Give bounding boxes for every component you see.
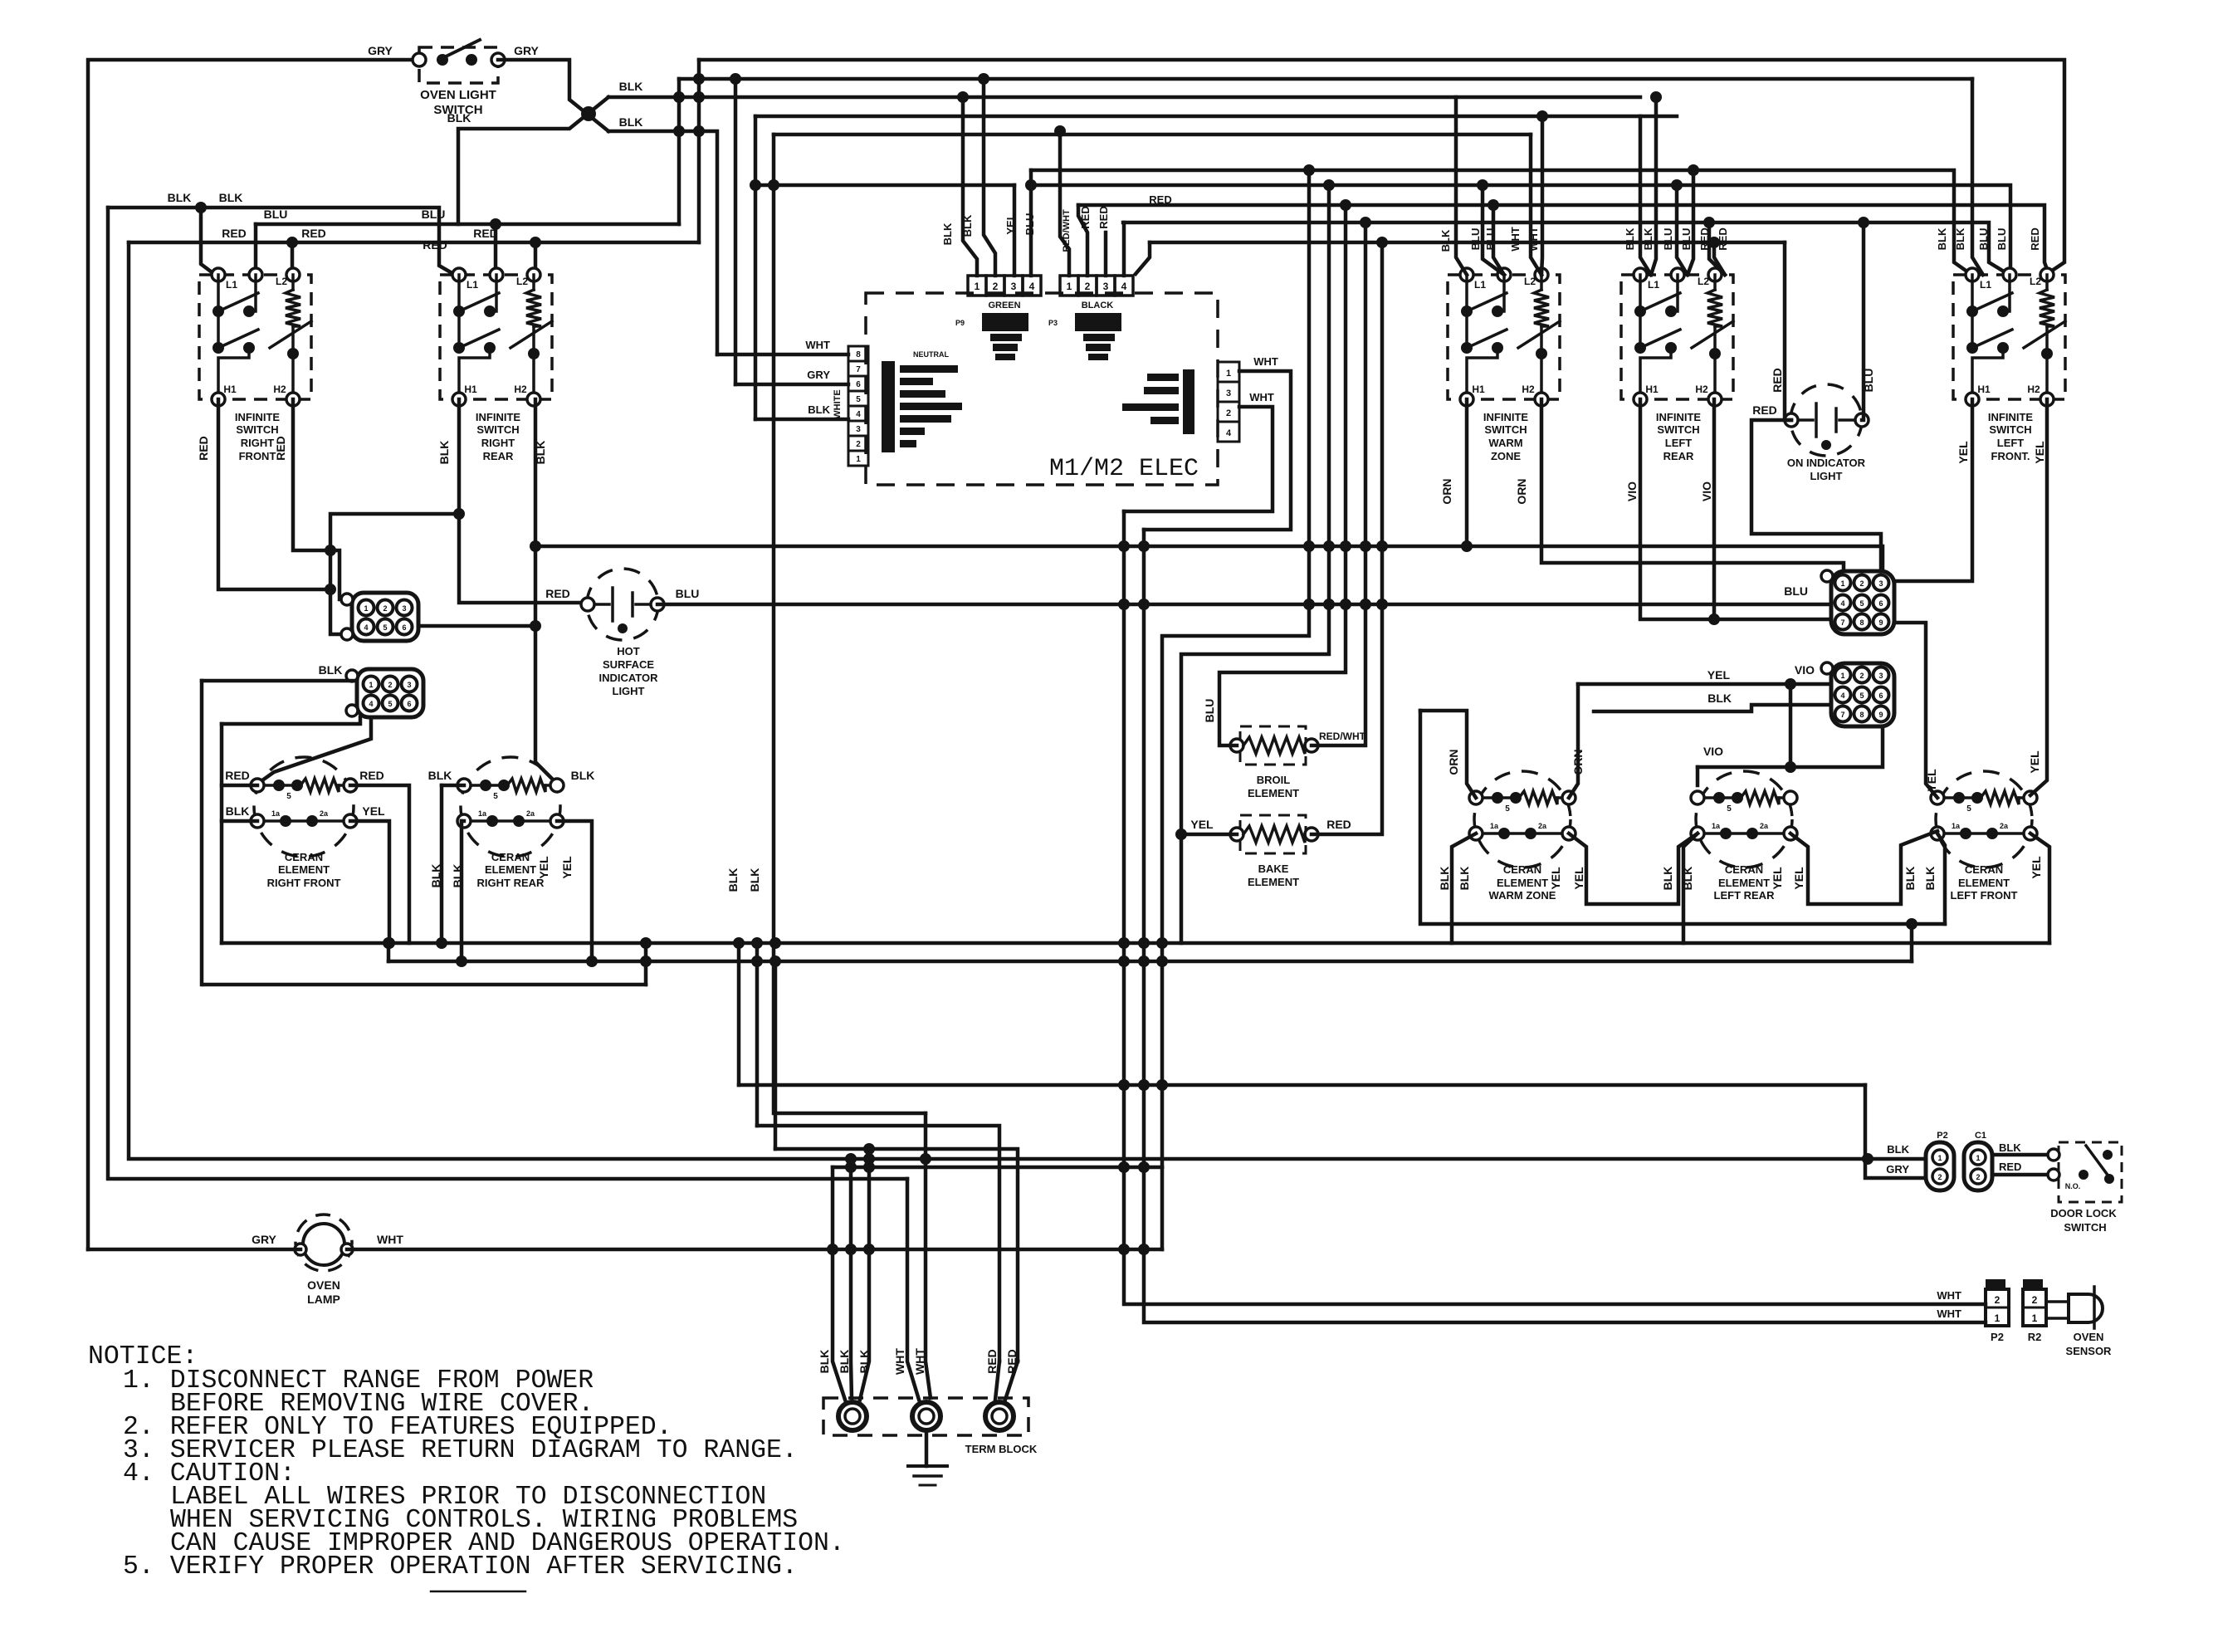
svg-text:9: 9: [1878, 711, 1883, 719]
svg-text:INFINITE: INFINITE: [1483, 411, 1528, 423]
svg-text:H1: H1: [464, 384, 477, 395]
label RED at hot surface light: [545, 587, 570, 600]
svg-text:RED: RED: [1752, 403, 1777, 417]
svg-text:RED: RED: [1326, 818, 1351, 831]
wire RED from right-rear H1 riser to hot surface light: [459, 514, 588, 603]
door lock switch: [2048, 1142, 2122, 1234]
svg-text:RED: RED: [301, 227, 326, 240]
svg-text:BLK: BLK: [941, 222, 954, 245]
svg-text:REAR: REAR: [483, 450, 514, 462]
labels above P9: [941, 213, 1036, 246]
svg-text:BAKE: BAKE: [1258, 863, 1289, 875]
wire ORN warm zone H2 to C3: [1541, 399, 1844, 571]
svg-text:WARM ZONE: WARM ZONE: [1489, 889, 1556, 902]
label YEL at C4: [1707, 668, 1731, 682]
svg-text:6: 6: [1878, 692, 1883, 700]
connector P2 (2-pin) door lock: [1926, 1131, 1954, 1190]
wires BLU pair to left rear P: [1671, 164, 1699, 275]
wire YEL ceran right rear down: [557, 821, 598, 967]
svg-text:1: 1: [1840, 579, 1844, 588]
svg-text:BLU: BLU: [1680, 228, 1693, 251]
ceran element left rear: [1691, 771, 1797, 902]
svg-text:YEL: YEL: [2030, 856, 2043, 879]
wire bake right riser x1665: [1312, 242, 1382, 834]
ceran element right rear: [457, 757, 564, 889]
wire riser x1601 to x1423: [1175, 185, 1329, 943]
control board M1/M2 ELEC: [866, 293, 1218, 485]
labels YEL below ceran warm zone: [1549, 867, 1585, 890]
svg-text:BLK: BLK: [1438, 867, 1451, 891]
svg-text:1: 1: [1067, 281, 1072, 292]
labels above left front: [1936, 227, 2041, 251]
wire tap BLK to right-front L1: [201, 208, 214, 274]
wire RED into ceran right front: [222, 784, 257, 788]
label RED at bake element: [1326, 818, 1351, 831]
svg-text:BLK: BLK: [619, 80, 643, 93]
svg-text:YEL: YEL: [2028, 750, 2041, 774]
svg-text:INFINITE: INFINITE: [1988, 411, 2033, 423]
svg-text:1: 1: [364, 604, 368, 613]
wire C2 down to ceran right front: [262, 717, 371, 780]
svg-text:5: 5: [493, 792, 498, 801]
svg-text:L1: L1: [1648, 279, 1659, 291]
connector P2 (oven sensor): [1986, 1279, 2009, 1343]
wire riser x890: [737, 943, 741, 1085]
svg-text:2: 2: [388, 681, 392, 689]
terminal block TERM BLOCK: [823, 1398, 1038, 1455]
wire central riser x1354 to oven sensor WHT1: [1118, 511, 1986, 1304]
ceran element left front: [1931, 771, 2037, 902]
svg-text:BLK: BLK: [1661, 867, 1674, 891]
svg-text:L2: L2: [2030, 276, 2041, 287]
svg-text:4: 4: [369, 700, 373, 708]
svg-text:YEL: YEL: [1004, 213, 1017, 234]
wire long bus y1136: [222, 937, 2049, 949]
wire into C2 upper: [202, 679, 357, 683]
svg-text:RED: RED: [985, 1349, 999, 1374]
svg-text:WHT: WHT: [893, 1348, 906, 1375]
svg-text:BLK: BLK: [961, 214, 974, 237]
label BLK at connector C2: [319, 663, 343, 677]
connector C4 (9-pin): [1821, 662, 1894, 726]
wire RED feeds into term block: [995, 1361, 1018, 1400]
wire broil right riser x1645: [1312, 222, 1365, 745]
wire RED into P3 pin3: [1104, 232, 1108, 276]
svg-text:YEL: YEL: [1707, 668, 1731, 682]
svg-text:BLK: BLK: [857, 1350, 871, 1374]
wire bus y140: [755, 115, 1677, 119]
label VIO below left rear H1: [1625, 481, 1639, 501]
svg-text:2a: 2a: [1538, 822, 1547, 830]
wire bus y223: [755, 179, 2010, 275]
svg-text:BLK: BLK: [437, 441, 451, 465]
wire BLK bus y250: [108, 202, 455, 275]
svg-text:2: 2: [1226, 408, 1231, 418]
label RED riser at on indicator: [1771, 368, 1784, 393]
svg-text:4: 4: [1121, 281, 1127, 292]
svg-text:8: 8: [1859, 618, 1864, 627]
svg-text:BLK: BLK: [1903, 867, 1917, 891]
label GRY at door lock conn: [1886, 1163, 1909, 1175]
svg-text:BLU: BLU: [1977, 228, 1990, 251]
wire BLK feeds into term block: [833, 1143, 875, 1400]
labels above warm zone: [1439, 227, 1540, 252]
wire right-rear H2 down to ceran right rear: [530, 399, 557, 784]
label BLK at C4: [1707, 692, 1732, 705]
svg-text:BLK: BLK: [1624, 227, 1636, 250]
wire bus y268: [1123, 217, 2008, 274]
wire run y1186: [203, 937, 652, 985]
svg-text:5: 5: [1859, 692, 1864, 700]
wire RED bus y292 left: [129, 237, 699, 248]
label BLU at broil element: [1203, 699, 1216, 723]
svg-text:1a: 1a: [271, 809, 281, 818]
label YEL below left front H2: [2033, 441, 2046, 464]
wire VIO left rear H1 to C3: [1640, 399, 1831, 619]
label VIO above ceran left rear: [1703, 745, 1723, 758]
svg-text:SWITCH: SWITCH: [236, 423, 278, 436]
svg-text:BLK: BLK: [1458, 867, 1471, 891]
svg-text:1: 1: [1976, 1154, 1980, 1162]
svg-text:C1: C1: [1975, 1131, 1986, 1141]
connector C2 (6-pin): [346, 669, 423, 717]
wire bus y205: [1031, 164, 1971, 274]
svg-text:SENSOR: SENSOR: [2066, 1345, 2113, 1357]
svg-text:RIGHT: RIGHT: [481, 437, 515, 449]
label GRY at oven lamp: [252, 1233, 276, 1246]
wires BLK pair to left rear L1: [1640, 91, 1662, 275]
labels YEL below ceran right rear: [537, 856, 574, 879]
connector C3 (9-pin): [1821, 570, 1894, 634]
wires WHT pair to warm zone L2: [1531, 110, 1548, 275]
wire BLK into P9 pin2: [978, 73, 995, 276]
wire right-front H1 to C1 riser: [218, 399, 336, 595]
svg-text:ELEMENT: ELEMENT: [278, 863, 330, 876]
svg-text:P9: P9: [955, 319, 965, 327]
svg-text:BLU: BLU: [1662, 228, 1674, 251]
wire run y1406: [833, 1166, 1162, 1170]
svg-text:VIO: VIO: [1625, 481, 1639, 501]
svg-text:YEL: YEL: [1792, 867, 1805, 890]
svg-text:BLK: BLK: [168, 191, 192, 204]
wire GRY from switch to crossover: [498, 60, 608, 131]
svg-text:2: 2: [1995, 1294, 2000, 1306]
connector P1 left (8-pin) on M1/M2: [833, 346, 962, 466]
svg-text:RED: RED: [1079, 206, 1092, 228]
label WHT sensor wire 2: [1937, 1307, 1961, 1320]
svg-text:INDICATOR: INDICATOR: [598, 672, 658, 684]
wire riser x842 RED: [697, 60, 701, 242]
wire run y1307: [739, 1083, 1865, 1087]
label RED below right-front H1: [197, 436, 210, 461]
svg-text:5: 5: [1859, 599, 1864, 608]
svg-text:L2: L2: [1698, 276, 1709, 287]
on indicator light: [1785, 384, 1869, 482]
wire ORN/YEL up ceran warm zone right: [1569, 684, 1578, 798]
svg-text:HOT: HOT: [617, 645, 640, 657]
svg-text:RED: RED: [1999, 1161, 2021, 1173]
svg-text:GRY: GRY: [1886, 1163, 1909, 1175]
wire BLU to bus y268: [1862, 222, 1864, 420]
notice text block: [88, 1342, 845, 1591]
label ORN below warm zone H2: [1515, 478, 1528, 504]
wire bus y292 (RED): [1150, 237, 1785, 248]
svg-text:WHT: WHT: [377, 1233, 403, 1246]
svg-text:RED: RED: [1097, 206, 1110, 228]
svg-text:H1: H1: [1472, 384, 1485, 395]
connector P2 right (4-pin) on M1/M2: [1122, 362, 1239, 442]
svg-text:BLU: BLU: [1469, 228, 1482, 251]
svg-text:2: 2: [1085, 281, 1091, 292]
svg-text:LEFT REAR: LEFT REAR: [1714, 889, 1776, 902]
svg-text:BLU: BLU: [676, 587, 700, 600]
labels BLK below ceran warm zone: [1438, 867, 1471, 891]
svg-text:H2: H2: [2027, 384, 2040, 395]
label YEL above ceran left front right: [2028, 750, 2041, 774]
bake element: [1230, 815, 1318, 888]
wire RED to door lock switch: [1992, 1173, 2052, 1177]
svg-text:1a: 1a: [1490, 822, 1499, 830]
svg-text:BLK: BLK: [1954, 227, 1966, 250]
labels RED ceran right front: [225, 769, 384, 782]
wire tap RED to right-rear L2: [530, 237, 541, 274]
svg-text:3: 3: [1011, 281, 1017, 292]
svg-text:5: 5: [383, 623, 387, 632]
wire left border 1 (GRY): [88, 60, 419, 1249]
wire tap RED to right-front L2: [291, 242, 295, 274]
svg-text:1: 1: [1226, 369, 1231, 379]
svg-text:3: 3: [1103, 281, 1109, 292]
infinite switch right front: [199, 268, 311, 462]
svg-text:YEL: YEL: [362, 804, 385, 818]
svg-text:WHT: WHT: [913, 1348, 926, 1375]
wire into C2 lower: [222, 717, 360, 724]
svg-text:H1: H1: [1977, 384, 1991, 395]
svg-text:RED: RED: [1005, 1349, 1019, 1374]
svg-text:RIGHT FRONT: RIGHT FRONT: [267, 877, 341, 889]
wire riser x243: [200, 681, 204, 985]
hot surface indicator light: [581, 569, 664, 697]
svg-text:2: 2: [1976, 1173, 1980, 1181]
svg-text:VIO: VIO: [1795, 663, 1815, 677]
svg-text:1: 1: [1995, 1312, 2000, 1324]
svg-text:R2: R2: [2028, 1331, 2042, 1343]
svg-text:BLK: BLK: [619, 115, 643, 129]
svg-text:2a: 2a: [1760, 822, 1769, 830]
wire BLK to warm zone L1: [1456, 97, 1467, 275]
wire BLK into ceran right front: [222, 819, 257, 824]
svg-text:H2: H2: [273, 384, 286, 395]
svg-text:BLK: BLK: [748, 868, 761, 892]
svg-text:2: 2: [383, 604, 387, 613]
wire right-front H2 to C1 upper: [293, 399, 347, 599]
wires RED pair to left rear L2: [1709, 222, 1725, 275]
svg-text:P3: P3: [1048, 319, 1058, 327]
svg-text:BLACK: BLACK: [1082, 301, 1114, 310]
svg-text:WHT: WHT: [805, 339, 830, 351]
svg-text:BLU: BLU: [264, 208, 288, 221]
labels RED bus y292: [222, 227, 498, 252]
svg-text:H2: H2: [1522, 384, 1535, 395]
svg-text:3: 3: [407, 681, 411, 689]
wire YEL into P9 pin3: [1013, 185, 1017, 276]
label BLU at hot surface light: [676, 587, 700, 600]
wire VIO run y924: [1698, 726, 1883, 767]
wire BLK into P9 pin1: [957, 91, 977, 276]
svg-text:WHT: WHT: [1509, 227, 1522, 252]
svg-text:L1: L1: [467, 279, 478, 291]
wire BLK ceran left rear down: [1683, 833, 1698, 943]
connector C1b (2-pin) door lock: [1964, 1131, 1992, 1190]
svg-text:CERAN: CERAN: [285, 851, 323, 863]
svg-text:BLK: BLK: [818, 1350, 831, 1374]
svg-text:1a: 1a: [478, 809, 487, 818]
label VIO at C4: [1795, 663, 1815, 677]
svg-text:BLK: BLK: [1707, 692, 1732, 705]
wire riser x912: [755, 943, 760, 1126]
svg-text:BLK: BLK: [571, 769, 595, 782]
wire tap BLU to right-front P: [254, 224, 258, 274]
svg-text:REAR: REAR: [1663, 450, 1694, 462]
svg-text:2: 2: [2032, 1294, 2038, 1306]
svg-text:ORN: ORN: [1515, 478, 1528, 504]
svg-text:VIO: VIO: [1703, 745, 1723, 758]
svg-text:1a: 1a: [1952, 822, 1961, 830]
svg-text:BLU: BLU: [422, 208, 446, 221]
wire YEL ceran right front to bus: [350, 821, 395, 949]
svg-text:ELEMENT: ELEMENT: [1958, 877, 2010, 889]
svg-text:BLK: BLK: [1642, 227, 1654, 250]
label YEL below left front H1: [1957, 441, 1970, 464]
svg-text:FRONT: FRONT: [239, 450, 276, 462]
wire YEL warm zone to left rear: [1569, 833, 1698, 904]
wire riser x932 to WHT2 feed: [768, 134, 926, 1113]
wire RED out ceran right front: [350, 785, 409, 943]
svg-text:4: 4: [856, 410, 861, 419]
label BLK upper at crossover: [619, 80, 643, 93]
infinite switch left rear: [1621, 268, 1733, 462]
label BLK lower at crossover: [619, 115, 643, 129]
svg-text:BROIL: BROIL: [1257, 774, 1291, 786]
svg-text:BLK: BLK: [1999, 1141, 2021, 1154]
labels BLK ceran right rear: [428, 769, 595, 782]
svg-text:YEL: YEL: [1957, 441, 1970, 464]
svg-text:1: 1: [2032, 1312, 2038, 1324]
svg-text:2: 2: [856, 440, 861, 449]
labels ORN above ceran warm zone: [1447, 749, 1585, 775]
svg-text:GRY: GRY: [252, 1233, 276, 1246]
svg-text:BLK: BLK: [226, 804, 250, 818]
wire left border 2 to WHT run: [108, 208, 907, 1179]
connector C1 (6-pin): [341, 593, 418, 641]
svg-text:INFINITE: INFINITE: [476, 411, 520, 423]
svg-text:LEFT: LEFT: [1665, 437, 1693, 449]
wire BLK to left front L1: [1972, 79, 1983, 275]
svg-text:4: 4: [1029, 281, 1035, 292]
wire broil left to riser x1621: [1219, 205, 1346, 745]
wire RED on-indicator to connector C3: [1751, 420, 1881, 571]
svg-text:INFINITE: INFINITE: [235, 411, 280, 423]
wire C1 right to H2 riser: [418, 624, 535, 628]
wire top bus y95: [679, 73, 1972, 85]
wire riser x934: [774, 961, 778, 1149]
wire RED into P3 pin4: [1122, 222, 1126, 276]
wire YEL left front H2 down to ceran: [2030, 399, 2047, 795]
wire riser x910 BLK to M1: [750, 116, 761, 419]
svg-text:P2: P2: [1991, 1331, 2004, 1343]
wire BLK into C4: [1594, 705, 1831, 711]
label BLU riser at on indicator: [1862, 369, 1875, 393]
wire BLU bus y270: [256, 218, 679, 230]
wire BLU bus y728 to connector C3: [657, 599, 1831, 610]
svg-text:2a: 2a: [526, 809, 535, 818]
svg-text:YEL: YEL: [1190, 818, 1214, 831]
wire ceran left front bottom-left down: [1937, 833, 1945, 924]
svg-text:2: 2: [993, 281, 999, 292]
svg-text:BLK: BLK: [1439, 229, 1452, 252]
svg-text:SWITCH: SWITCH: [2064, 1221, 2106, 1234]
svg-text:3: 3: [1878, 579, 1883, 588]
svg-text:1: 1: [975, 281, 980, 292]
svg-text:2: 2: [1937, 1173, 1942, 1181]
labels BLK YEL ceran right front: [226, 804, 385, 818]
wire BLK into M1 left: [755, 403, 848, 419]
svg-text:4: 4: [1840, 692, 1844, 700]
svg-text:H2: H2: [1695, 384, 1708, 395]
label BLK at door lock conn: [1887, 1143, 1909, 1156]
wire bake left to riser x1423: [1181, 833, 1237, 837]
svg-text:RED: RED: [274, 436, 287, 461]
infinite switch right rear: [440, 268, 552, 462]
svg-text:1a: 1a: [1712, 822, 1721, 830]
svg-text:BLK: BLK: [1887, 1143, 1909, 1156]
svg-text:1: 1: [856, 455, 861, 464]
labels RED at term block: [985, 1349, 1019, 1374]
svg-text:WHT: WHT: [1249, 391, 1274, 403]
wire WHT into M1 left: [717, 339, 848, 354]
svg-text:5. VERIFY PROPER OPERATION AFT: 5. VERIFY PROPER OPERATION AFTER SERVICI…: [123, 1552, 798, 1581]
svg-text:2: 2: [1859, 579, 1864, 588]
svg-text:5: 5: [1966, 804, 1971, 814]
svg-text:3: 3: [1226, 389, 1231, 398]
svg-text:3: 3: [1878, 672, 1883, 680]
labels BLK at term block: [818, 1350, 871, 1374]
svg-text:3: 3: [856, 425, 861, 434]
wire central riser x1378 to oven sensor WHT2: [1138, 530, 1986, 1322]
svg-text:ORN: ORN: [1440, 478, 1453, 504]
svg-text:BLU: BLU: [1023, 213, 1036, 236]
svg-text:4: 4: [1226, 428, 1232, 438]
wire long bus y658 to connector C3: [535, 540, 1883, 571]
labels WHT at term block: [893, 1348, 926, 1375]
svg-text:BLK: BLK: [428, 769, 452, 782]
svg-text:7: 7: [1840, 711, 1844, 719]
svg-text:ELEMENT: ELEMENT: [1718, 877, 1770, 889]
wire BLK2 ceran right rear: [456, 821, 467, 967]
label VIO below left rear H2: [1700, 481, 1713, 501]
svg-text:YEL: YEL: [1572, 867, 1585, 890]
svg-text:WHT: WHT: [1937, 1289, 1961, 1302]
svg-text:L2: L2: [516, 276, 528, 287]
wire BLK ceran right rear left: [436, 785, 464, 949]
wire right-rear H1 down to C1: [330, 399, 465, 634]
svg-text:RED: RED: [359, 769, 384, 782]
label YEL left of ceran left front: [1925, 769, 1938, 792]
svg-text:GRY: GRY: [514, 44, 539, 57]
label ORN below warm zone H1: [1440, 478, 1453, 504]
wire top bus y72 to left-front RED: [699, 60, 2064, 274]
svg-text:H2: H2: [514, 384, 527, 395]
